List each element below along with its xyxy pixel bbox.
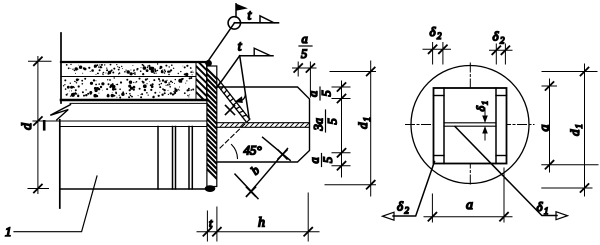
label a/5 (chain bottom) xyxy=(308,154,336,167)
svg-text:a: a xyxy=(308,157,322,163)
d middle tick xyxy=(34,117,42,125)
b dimension line xyxy=(247,149,288,197)
svg-text:2: 2 xyxy=(405,206,410,216)
svg-text:d: d xyxy=(355,122,370,129)
label a/5 top xyxy=(301,32,308,61)
wall edge lower xyxy=(59,120,61,208)
right side plate inner edge xyxy=(495,88,497,164)
svg-text:a: a xyxy=(466,198,473,213)
label d1 (middle) xyxy=(355,117,372,129)
slab middle line xyxy=(61,76,196,78)
svg-text:δ: δ xyxy=(493,29,500,44)
weld symbol circle leader xyxy=(206,23,234,64)
weld symbol circle xyxy=(228,17,240,29)
svg-text:a: a xyxy=(538,125,553,132)
label a/5 (chain top) xyxy=(306,87,334,100)
svg-text:δ: δ xyxy=(537,199,544,214)
label 3a/5 (chain middle) xyxy=(312,110,340,132)
svg-text:1: 1 xyxy=(574,124,584,129)
45 degree arc xyxy=(232,145,238,159)
tube outer square xyxy=(434,88,507,164)
dim a bottom xyxy=(424,168,512,222)
weld ref line 2 xyxy=(240,55,273,57)
d bottom tick xyxy=(34,185,42,193)
b extension line upper xyxy=(263,137,291,160)
svg-text:a: a xyxy=(306,91,320,97)
svg-text:1: 1 xyxy=(544,206,549,216)
svg-text:δ: δ xyxy=(474,106,488,112)
t and h dimensions at bottom xyxy=(206,211,208,241)
right side ext lines xyxy=(542,72,598,189)
svg-text:1: 1 xyxy=(480,101,490,105)
octagon plate outline xyxy=(218,87,310,162)
horizontal plate (hatched strip) xyxy=(217,121,316,129)
45 degree dashed line xyxy=(220,119,250,148)
delta1 leader bottom-right xyxy=(455,127,557,216)
svg-text:d: d xyxy=(567,129,582,136)
svg-text:a: a xyxy=(302,32,308,46)
fillet weld triangle 2 xyxy=(254,48,270,56)
svg-text:45°: 45° xyxy=(244,143,262,158)
weld blob bottom of plate xyxy=(205,185,216,192)
beam bottom edge xyxy=(60,188,207,190)
beam top line 1 xyxy=(33,120,207,122)
svg-text:h: h xyxy=(258,216,265,231)
b tick lower xyxy=(247,187,256,196)
corner notches right xyxy=(496,95,507,97)
corner notches left xyxy=(434,95,445,97)
concrete stipple xyxy=(63,63,194,98)
svg-text:δ: δ xyxy=(397,199,404,214)
delta1 mini dimension arrows xyxy=(484,108,486,122)
fillet weld triangle 1 xyxy=(260,16,274,23)
X tick on sloped plate xyxy=(226,106,235,115)
b extension line lower xyxy=(235,174,258,199)
svg-text:3a: 3a xyxy=(312,118,326,132)
b tick upper xyxy=(278,150,287,159)
svg-text:5: 5 xyxy=(326,118,340,124)
dim a/5 top: ticks xyxy=(294,64,302,72)
sloped weld plate (ladder band) xyxy=(217,78,248,122)
weld ref line 1 xyxy=(235,22,279,24)
middle horizontal plate delta1 xyxy=(444,122,496,124)
weld symbol flag pole xyxy=(235,4,237,17)
beam top line 2 xyxy=(60,126,207,128)
wall break zigzag xyxy=(50,105,70,120)
slab end hatched block xyxy=(190,47,216,112)
d top tick xyxy=(34,57,42,65)
weld leader to octagon corner xyxy=(218,56,240,87)
svg-text:2: 2 xyxy=(437,31,442,41)
svg-text:1: 1 xyxy=(5,224,12,239)
d middle end dash xyxy=(43,121,46,129)
svg-text:1: 1 xyxy=(362,117,372,122)
vertical chain dimension line xyxy=(341,81,343,177)
svg-text:5: 5 xyxy=(321,157,335,163)
left side plate inner edge xyxy=(443,88,445,164)
detail circle xyxy=(411,66,529,184)
svg-text:5: 5 xyxy=(301,47,307,61)
weld dot top of plate xyxy=(205,60,212,67)
chain ext segs + ticks xyxy=(332,87,350,166)
label delta1 rotated xyxy=(474,101,490,112)
svg-text:d: d xyxy=(20,122,35,130)
svg-text:δ: δ xyxy=(430,24,437,39)
dim a/5 top: ext lines xyxy=(297,62,299,76)
d top extension xyxy=(29,60,52,62)
dimension d line xyxy=(37,57,39,194)
slab top edge xyxy=(61,61,207,63)
svg-text:5: 5 xyxy=(320,90,334,96)
slab bottom thick edge xyxy=(61,99,207,102)
wall edge upper xyxy=(60,33,62,103)
horizontal centerline xyxy=(406,124,535,126)
slab soffit thin line xyxy=(70,102,207,104)
d1 dimension (middle figure) xyxy=(330,71,376,73)
beam end vertical lines xyxy=(157,127,159,190)
weld symbol flag xyxy=(236,4,248,11)
svg-text:2: 2 xyxy=(500,36,505,46)
delta2 leader bottom-left xyxy=(393,162,435,217)
label d xyxy=(20,122,35,130)
dim a right xyxy=(549,79,551,172)
delta2 dim top-left xyxy=(423,43,451,65)
weld leader curved arrow to sloped plate xyxy=(240,56,250,120)
leader of label 1 xyxy=(14,176,97,232)
dim a/5 top: line xyxy=(293,67,317,69)
delta2 dim top-right xyxy=(490,44,513,64)
end plate (hatched vertical plate) xyxy=(200,62,226,188)
d bottom extension xyxy=(28,188,49,190)
vertical centerline xyxy=(469,63,471,187)
dim d1 right xyxy=(584,64,586,196)
